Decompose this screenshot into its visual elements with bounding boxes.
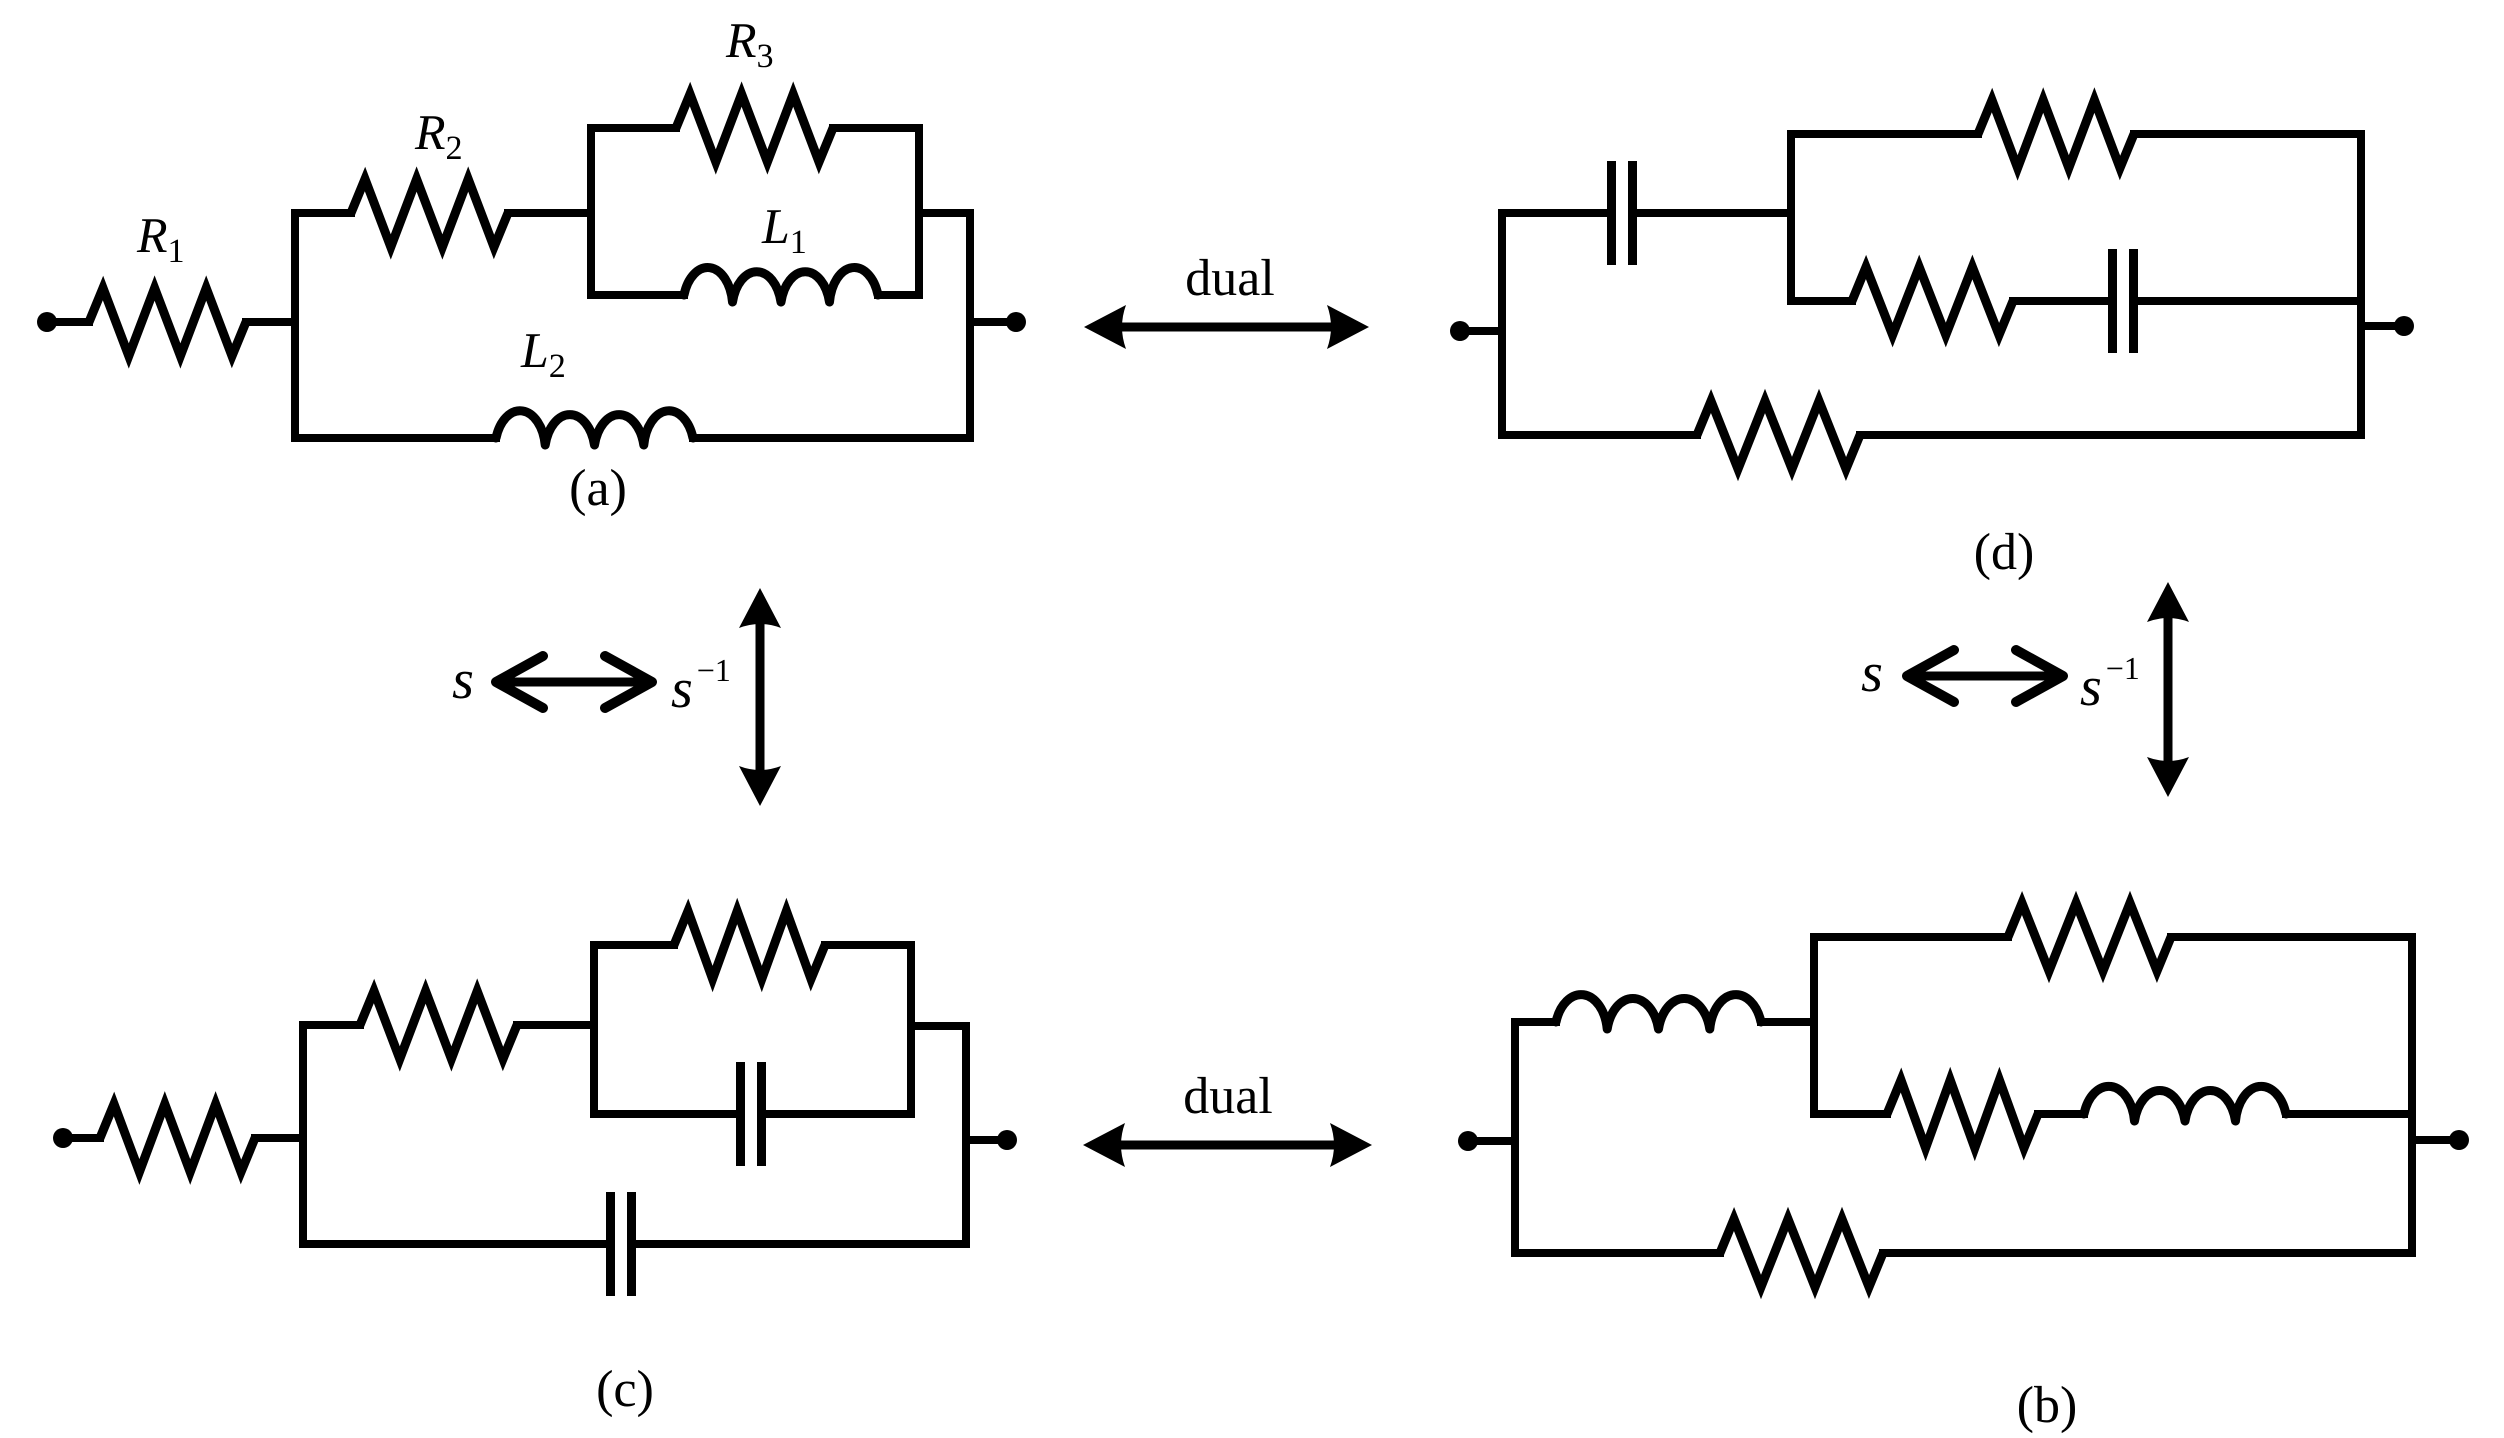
- wire: [594, 1110, 740, 1118]
- resistor: [100, 1104, 255, 1172]
- capacitor: [736, 1062, 745, 1166]
- wire: [2286, 1110, 2412, 1118]
- wire: [1761, 1018, 1814, 1026]
- resistor: [1697, 401, 1860, 469]
- wire: [833, 124, 919, 132]
- wire: [590, 945, 598, 1114]
- resistor: [674, 911, 825, 979]
- inductor: [2084, 1086, 2286, 1121]
- resistor: [2008, 903, 2171, 971]
- wire: [1511, 1022, 1519, 1253]
- wire: [966, 1136, 997, 1144]
- wire: [1860, 431, 2361, 439]
- wire: [911, 1022, 966, 1030]
- wire: [1810, 937, 1818, 1114]
- label s^-1 (left): [672, 660, 729, 708]
- wire: [970, 318, 1006, 326]
- capacitor: [2108, 249, 2117, 353]
- wire: [594, 941, 674, 949]
- label (c): [598, 1370, 651, 1417]
- wire: [2171, 933, 2412, 941]
- label dual (top): [1187, 259, 1274, 296]
- wire: [878, 291, 919, 299]
- vertical arrow (d)-(b): [2164, 616, 2173, 763]
- label L1: [761, 210, 804, 253]
- wire: [1791, 130, 1978, 138]
- wire: [246, 318, 295, 326]
- inductor: [1556, 995, 1761, 1029]
- wire: [762, 1110, 911, 1118]
- wire: [2134, 130, 2361, 138]
- vertical arrow (a)-(c): [756, 622, 765, 772]
- node (c) left terminal: [53, 1128, 73, 1148]
- wire: [1814, 1110, 1887, 1118]
- s arrow (left): [496, 678, 652, 687]
- node (c) right terminal: [997, 1130, 1017, 1150]
- wire: [919, 209, 970, 217]
- label (b): [2019, 1386, 2075, 1433]
- wire: [1814, 933, 2008, 941]
- node (b) left terminal: [1458, 1131, 1478, 1151]
- label s (right): [1862, 665, 1881, 692]
- wire: [1502, 431, 1697, 439]
- wire: [1633, 209, 1791, 217]
- wire: [1502, 209, 1611, 217]
- label L2: [520, 334, 564, 377]
- resistor R1: [89, 288, 246, 356]
- label s^-1 (right): [2081, 658, 2138, 706]
- resistor: [1887, 1080, 2038, 1148]
- label (d): [1976, 533, 2032, 580]
- dual arrow (a)-(d): [1118, 323, 1335, 332]
- resistor: [1852, 267, 2013, 335]
- wire: [291, 213, 299, 438]
- label dual (bottom): [1185, 1077, 1272, 1114]
- label R3: [726, 24, 773, 67]
- wire: [1883, 1249, 2412, 1257]
- wire: [47, 318, 89, 326]
- wire: [255, 1134, 303, 1142]
- resistor: [360, 991, 517, 1059]
- wire: [2134, 297, 2361, 305]
- wire: [1515, 1018, 1556, 1026]
- capacitor: [1607, 161, 1616, 265]
- wire: [2357, 134, 2365, 435]
- resistor R3: [676, 94, 833, 162]
- inductor L1: [684, 268, 878, 302]
- wire: [2412, 1136, 2449, 1144]
- wire: [2361, 322, 2394, 330]
- wire: [693, 434, 970, 442]
- wire: [587, 128, 595, 295]
- dual arrow (c)-(b): [1117, 1141, 1338, 1150]
- label s (left): [453, 672, 472, 699]
- wire: [295, 434, 496, 442]
- wire: [907, 945, 915, 1114]
- node (d) right terminal: [2394, 316, 2414, 336]
- wire: [303, 1021, 360, 1029]
- wire: [517, 1021, 594, 1029]
- wire: [966, 213, 974, 438]
- wire: [303, 1240, 610, 1248]
- capacitor: [606, 1192, 615, 1296]
- wire: [1498, 213, 1506, 435]
- wire: [2013, 297, 2112, 305]
- wire: [2408, 937, 2416, 1253]
- node (a) left terminal: [37, 312, 57, 332]
- s arrow (right): [1907, 672, 2063, 681]
- resistor R2: [351, 179, 508, 247]
- inductor L2: [496, 411, 693, 445]
- wire: [1787, 134, 1795, 301]
- label R2: [415, 116, 461, 159]
- wire: [508, 209, 591, 217]
- wire: [63, 1134, 100, 1142]
- node (a) right terminal: [1006, 312, 1026, 332]
- label (a): [571, 469, 624, 516]
- wire: [295, 209, 351, 217]
- node (b) right terminal: [2449, 1130, 2469, 1150]
- wire: [1468, 1137, 1515, 1145]
- resistor: [1720, 1219, 1883, 1287]
- wire: [632, 1240, 966, 1248]
- wire: [591, 291, 684, 299]
- wire: [2038, 1110, 2084, 1118]
- wire: [1791, 297, 1852, 305]
- resistor: [1978, 100, 2134, 168]
- wire: [299, 1025, 307, 1244]
- wire: [962, 1026, 970, 1244]
- wire: [825, 941, 911, 949]
- wire: [915, 128, 923, 295]
- wire: [1515, 1249, 1720, 1257]
- label R1: [137, 219, 183, 262]
- wire: [591, 124, 676, 132]
- node (d) left terminal: [1450, 321, 1470, 341]
- wire: [1460, 327, 1502, 335]
